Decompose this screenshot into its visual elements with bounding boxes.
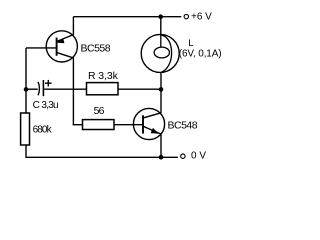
svg-text:0 V: 0 V [191,151,206,162]
svg-text:C: C [33,100,40,111]
svg-text:680k: 680k [33,125,53,136]
svg-text:56: 56 [94,105,105,117]
svg-text:(6V, 0,1A): (6V, 0,1A) [179,49,222,60]
svg-text:BC558: BC558 [81,43,111,55]
svg-text:+6 V: +6 V [191,11,212,22]
svg-text:3,3u: 3,3u [41,100,58,111]
svg-text:R 3,3k: R 3,3k [88,70,119,82]
svg-text:BC548: BC548 [168,119,198,131]
svg-text:L: L [188,38,193,49]
